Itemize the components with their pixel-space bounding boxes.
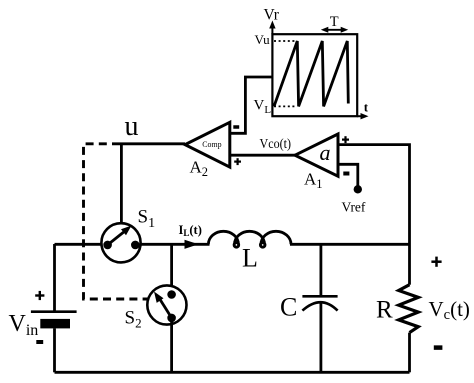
svg-text:C: C bbox=[280, 293, 297, 322]
svg-text:a: a bbox=[320, 140, 331, 165]
svg-text:Vu: Vu bbox=[255, 32, 271, 47]
svg-text:Vco(t): Vco(t) bbox=[260, 137, 292, 152]
svg-text:S2: S2 bbox=[125, 308, 142, 331]
svg-text:Vin: Vin bbox=[9, 311, 39, 339]
svg-text:S1: S1 bbox=[138, 207, 156, 232]
svg-text:A2: A2 bbox=[190, 158, 209, 180]
svg-text:Vr: Vr bbox=[264, 7, 280, 24]
svg-text:R: R bbox=[376, 297, 393, 324]
svg-text:u: u bbox=[125, 111, 139, 142]
svg-text:VL: VL bbox=[254, 98, 272, 117]
svg-text:Comp: Comp bbox=[202, 140, 221, 149]
svg-text:IL(t): IL(t) bbox=[179, 223, 202, 238]
svg-text:t: t bbox=[364, 100, 369, 115]
svg-text:Vref: Vref bbox=[342, 200, 366, 215]
svg-text:Vc(t): Vc(t) bbox=[429, 297, 470, 323]
svg-text:L: L bbox=[242, 244, 258, 273]
svg-text:T: T bbox=[330, 14, 339, 30]
svg-text:A1: A1 bbox=[304, 170, 323, 192]
